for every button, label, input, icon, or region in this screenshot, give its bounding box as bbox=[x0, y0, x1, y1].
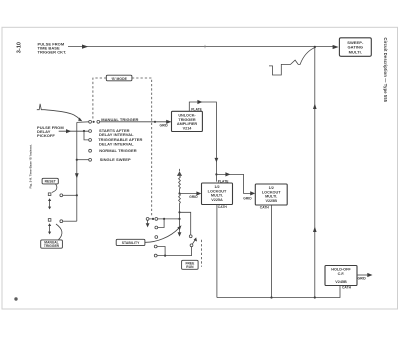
svg-text:3-10: 3-10 bbox=[17, 42, 23, 53]
svg-text:CATH: CATH bbox=[260, 206, 270, 210]
svg-text:CATH: CATH bbox=[342, 286, 352, 290]
svg-text:TRIGGER CKT.: TRIGGER CKT. bbox=[38, 49, 67, 54]
svg-text:NORMAL TRIGGER: NORMAL TRIGGER bbox=[99, 148, 137, 153]
svg-text:GRID: GRID bbox=[160, 123, 169, 127]
svg-text:RUN: RUN bbox=[186, 265, 194, 269]
svg-text:MULTI.: MULTI. bbox=[349, 49, 362, 54]
svg-text:Circuit Description — Type 555: Circuit Description — Type 555 bbox=[383, 38, 388, 103]
svg-text:V225A: V225A bbox=[211, 198, 223, 202]
svg-text:Fig. 3-8. Time-Base ‘B’ lockou: Fig. 3-8. Time-Base ‘B’ lockout. bbox=[29, 144, 33, 188]
svg-text:V214: V214 bbox=[183, 127, 193, 131]
svg-text:DELAY INTERVAL: DELAY INTERVAL bbox=[99, 141, 134, 146]
svg-text:GRID: GRID bbox=[189, 195, 198, 199]
svg-text:PLATE: PLATE bbox=[191, 108, 202, 112]
svg-text:GRID: GRID bbox=[358, 277, 367, 281]
svg-text:GRID: GRID bbox=[243, 196, 252, 200]
svg-text:TRIGGER: TRIGGER bbox=[44, 244, 60, 248]
svg-text:RESET: RESET bbox=[45, 180, 56, 184]
svg-text:V245B: V245B bbox=[335, 280, 347, 284]
svg-text:V225B: V225B bbox=[265, 199, 277, 203]
svg-text:‘B’ MODE: ‘B’ MODE bbox=[111, 77, 127, 81]
svg-text:PICKOFF: PICKOFF bbox=[37, 133, 55, 138]
svg-text:C.F.: C.F. bbox=[338, 272, 345, 276]
svg-text:SINGLE SWEEP: SINGLE SWEEP bbox=[100, 157, 131, 162]
svg-text:CATH: CATH bbox=[218, 205, 228, 209]
svg-text:STABILITY: STABILITY bbox=[122, 241, 140, 245]
svg-text:PLATE: PLATE bbox=[218, 180, 229, 184]
